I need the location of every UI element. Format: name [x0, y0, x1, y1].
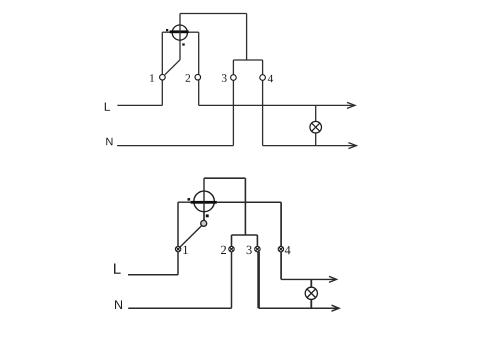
meter M1 current coil bar: [170, 30, 189, 33]
wire: N output line: [259, 307, 338, 309]
wire: terminal 4 drop to N out: [262, 75, 264, 146]
terminal 1 bottom: [175, 246, 180, 251]
arrow N out: [348, 143, 356, 149]
wire: L input line: [117, 104, 162, 106]
meter M2 voltage wire overlay: [203, 191, 205, 223]
meter M2 current coil bar: [191, 201, 217, 204]
polarity mark left: [188, 198, 191, 201]
lamp HL2 stub bottom: [310, 299, 312, 308]
terminal 4: [260, 75, 266, 81]
wire: bracket left leg to terminal 2: [231, 235, 233, 247]
terminal 2: [195, 74, 201, 80]
meter M1 circle: [172, 25, 187, 40]
label 1 bottom: [183, 246, 187, 254]
wire: switch blade diagonal to terminal 1: [180, 226, 202, 248]
terminal 4 bottom: [278, 246, 283, 251]
label N: [106, 138, 112, 146]
wire: N input line: [128, 307, 231, 309]
wire: right stub from current coil: [188, 31, 199, 33]
terminal 2 bottom: [229, 246, 234, 251]
label L: [105, 103, 110, 111]
arrow L out bottom: [329, 276, 337, 282]
wire: right drop from top horizontal: [246, 14, 248, 61]
wire: bracket left leg to terminal 3: [232, 60, 234, 75]
lamp HL1 stub top: [315, 105, 317, 121]
wire: N output line: [263, 145, 355, 147]
label 3 bottom: [247, 246, 252, 254]
lamp HL2 stub top: [310, 279, 312, 287]
terminal 1: [160, 74, 166, 80]
wire: voltage tap top horizontal: [204, 177, 245, 179]
polarity mark near pivot: [206, 214, 209, 217]
label 1: [150, 74, 154, 82]
wire: terminal 3 drop to N: [232, 75, 234, 146]
wire: right vertical to terminal 2 and L out: [198, 32, 200, 105]
wire: left stub from current coil: [162, 31, 171, 33]
wire: L input line: [128, 274, 178, 276]
meter M1 voltage wire overlay: [179, 24, 181, 40]
lamp HL1 stub bottom: [315, 133, 317, 146]
wire: voltage tap top horizontal: [180, 13, 247, 15]
wire: L output line: [199, 104, 354, 106]
wire: right run from current coil: [217, 201, 281, 203]
terminal 3 bottom: [255, 246, 260, 251]
polarity mark lower right: [182, 43, 184, 45]
wire: voltage coil vertical through meter: [203, 178, 205, 220]
label 2: [186, 74, 191, 82]
wire: bracket over terminals 2-3: [232, 234, 258, 236]
wire: left vertical through terminal 1 to L: [177, 202, 179, 275]
wire: L output line: [281, 278, 335, 280]
wire: voltage coil vertical through meter: [179, 14, 181, 60]
pivot small circle: [201, 220, 207, 226]
label 4: [268, 75, 273, 83]
wire: left stub from current coil: [178, 201, 191, 203]
label L bottom: [114, 263, 121, 273]
wire: bracket right leg to terminal 4: [262, 60, 264, 75]
wire: terminal 2 drop to N in: [231, 252, 233, 308]
wire: bracket over terminals 3-4: [233, 59, 262, 61]
label 4 bottom: [285, 246, 291, 254]
label N bottom: [115, 300, 122, 309]
polarity mark upper left: [166, 29, 168, 31]
meter M2 circle: [194, 191, 215, 212]
label 2 bottom: [221, 246, 226, 254]
label 3: [222, 74, 227, 82]
wire: left vertical to terminal 1 and L: [161, 32, 163, 105]
wire: N input line: [117, 145, 233, 147]
wire: bracket right leg to terminal 3: [256, 235, 258, 247]
lamp HL1: [310, 121, 322, 133]
terminal 3: [231, 75, 237, 81]
arrow N out bottom: [332, 305, 340, 311]
lamp HL2: [305, 287, 317, 299]
wire: terminal 3 thick drop to N out: [257, 252, 260, 308]
wire: right vertical through terminal 4 to L out: [280, 202, 282, 279]
wire: feed drop to bracket: [244, 178, 246, 235]
arrow L out: [347, 102, 355, 108]
wire: diagonal to terminal 1: [165, 60, 180, 75]
